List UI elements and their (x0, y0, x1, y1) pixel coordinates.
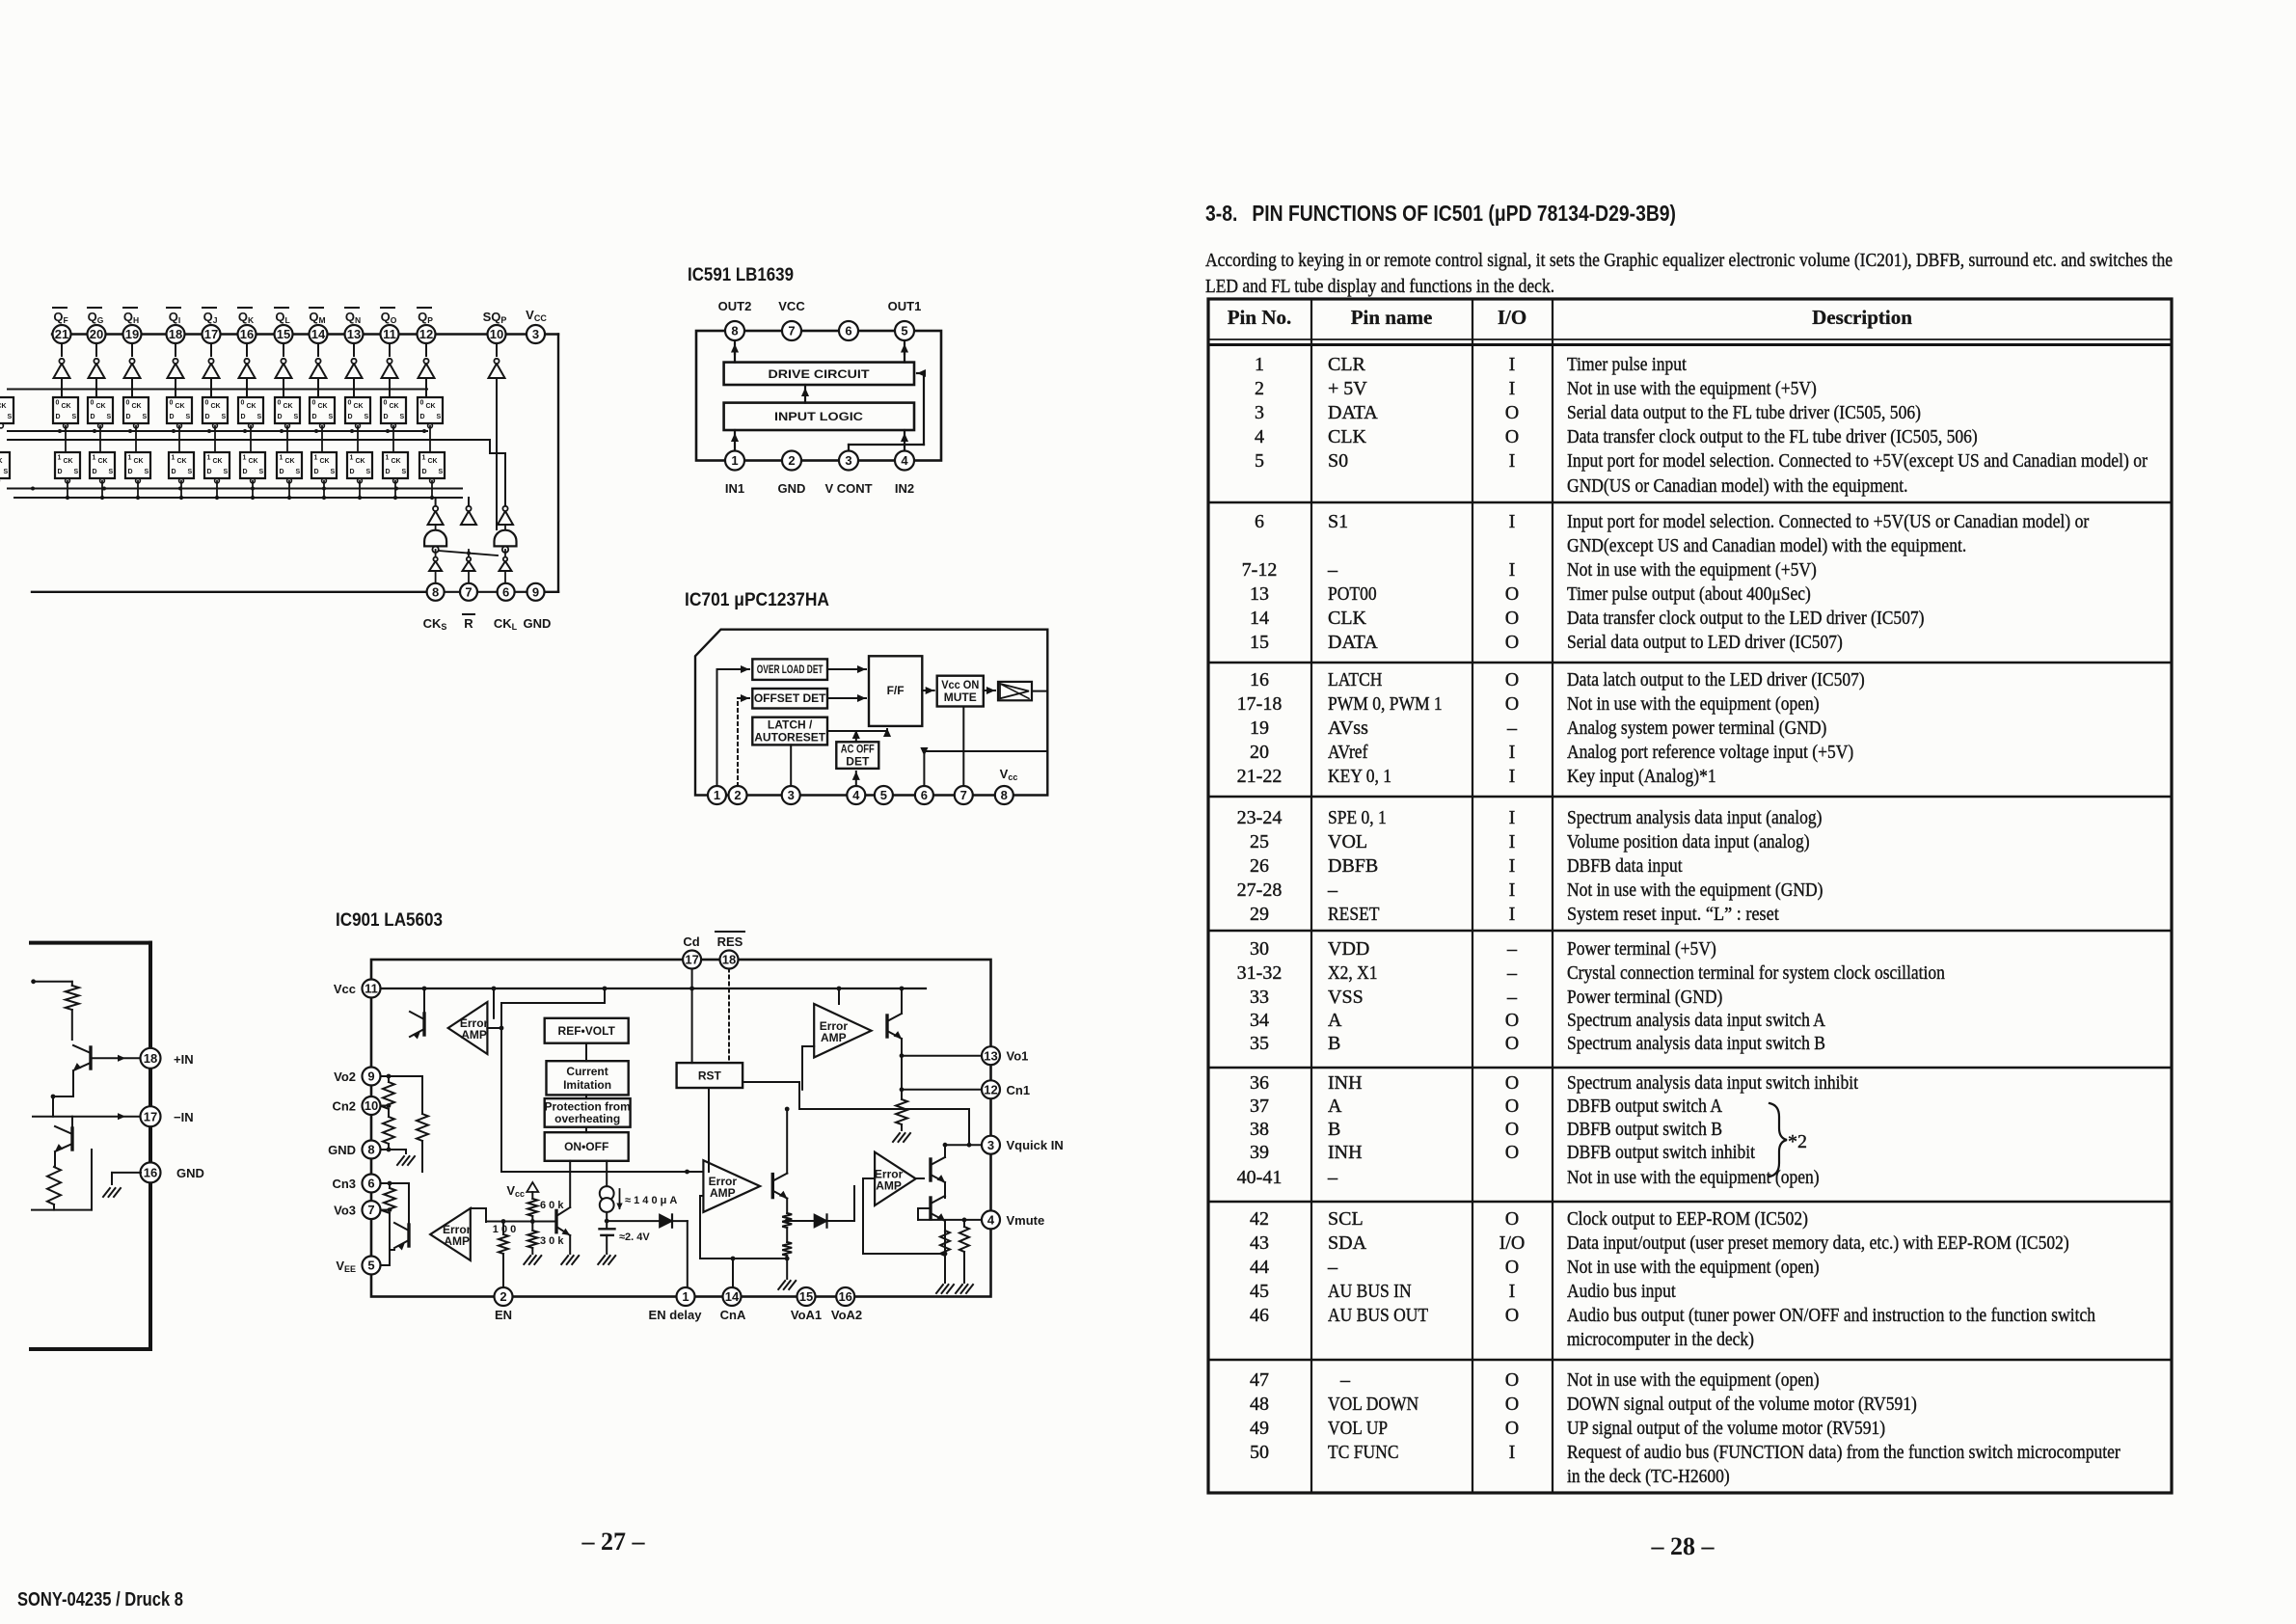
svg-text:CK: CK (320, 458, 330, 465)
svg-text:DBFB output switch B: DBFB output switch B (1567, 1119, 1722, 1140)
svg-text:O: O (1505, 1033, 1519, 1054)
svg-text:Clock output to EEP-ROM (IC502: Clock output to EEP-ROM (IC502) (1567, 1208, 1808, 1230)
svg-text:Not in use with the equipment: Not in use with the equipment (open) (1567, 693, 1820, 715)
svg-text:3: 3 (845, 453, 851, 468)
svg-text:RST: RST (698, 1069, 722, 1082)
svg-text:Spectrum analysis data input (: Spectrum analysis data input (analog) (1567, 807, 1823, 828)
svg-text:38: 38 (1250, 1119, 1269, 1140)
svg-text:S: S (74, 469, 79, 475)
svg-text:D: D (350, 469, 355, 475)
svg-text:CK: CK (392, 458, 401, 465)
svg-text:16: 16 (838, 1289, 851, 1304)
svg-text:I: I (1509, 378, 1516, 399)
svg-text:I: I (1509, 831, 1516, 853)
svg-text:F/F: F/F (887, 684, 905, 697)
svg-text:PWM 0, PWM 1: PWM 0, PWM 1 (1328, 693, 1443, 715)
svg-text:16: 16 (1250, 669, 1269, 690)
svg-text:Serial data output to the FL t: Serial data output to the FL tube driver… (1567, 402, 1921, 423)
svg-text:O: O (1505, 426, 1519, 447)
svg-text:VCC: VCC (778, 299, 805, 313)
svg-text:O: O (1505, 608, 1519, 629)
svg-text:2: 2 (734, 788, 741, 802)
svg-text:6 0 k: 6 0 k (540, 1200, 564, 1211)
svg-text:AVref: AVref (1328, 742, 1368, 763)
svg-text:2: 2 (1255, 378, 1264, 399)
svg-text:Not in use with the equipment: Not in use with the equipment (open) (1567, 1369, 1820, 1391)
svg-text:D: D (170, 414, 175, 420)
svg-text:Vcc: Vcc (506, 1183, 525, 1199)
svg-text:18: 18 (144, 1051, 157, 1066)
svg-text:47: 47 (1250, 1369, 1269, 1391)
svg-text:QL: QL (275, 310, 289, 325)
svg-text:14: 14 (1250, 608, 1269, 629)
svg-text:VSS: VSS (1328, 987, 1364, 1008)
svg-text:QN: QN (345, 310, 361, 325)
svg-text:Vquick IN: Vquick IN (1007, 1138, 1064, 1152)
svg-text:RESET: RESET (1328, 904, 1380, 925)
svg-text:VDD: VDD (1328, 938, 1369, 960)
svg-text:D: D (422, 469, 427, 475)
svg-text:CKS: CKS (423, 616, 447, 632)
svg-text:3: 3 (532, 327, 539, 341)
svg-text:13: 13 (984, 1048, 997, 1063)
svg-text:S: S (4, 469, 9, 475)
svg-text:VoA2: VoA2 (831, 1308, 862, 1322)
svg-text:CK: CK (132, 403, 142, 410)
svg-text:12: 12 (419, 327, 433, 341)
svg-text:D: D (348, 414, 353, 420)
svg-text:Spectrum analysis data input s: Spectrum analysis data input switch B (1567, 1033, 1825, 1054)
svg-text:D: D (93, 469, 97, 475)
svg-text:15: 15 (277, 327, 290, 341)
svg-text:1: 1 (422, 455, 426, 462)
svg-text:CLK: CLK (1328, 426, 1367, 447)
svg-text:4: 4 (852, 788, 860, 802)
svg-text:5: 5 (901, 324, 907, 338)
svg-text:O: O (1505, 693, 1519, 715)
svg-text:1: 1 (731, 453, 738, 468)
svg-text:CnA: CnA (720, 1308, 746, 1322)
svg-text:0: 0 (278, 400, 282, 407)
svg-text:VCC: VCC (526, 308, 547, 323)
svg-text:ON•OFF: ON•OFF (564, 1140, 608, 1153)
svg-text:AMP: AMP (821, 1031, 847, 1044)
svg-text:Serial data output to LED driv: Serial data output to LED driver (IC507) (1567, 632, 1843, 653)
svg-text:46: 46 (1250, 1305, 1269, 1326)
svg-text:17-18: 17-18 (1237, 693, 1283, 715)
svg-text:Vo2: Vo2 (334, 1069, 356, 1084)
svg-text:GND: GND (778, 481, 806, 496)
svg-text:S: S (145, 469, 149, 475)
svg-text:CK: CK (177, 458, 187, 465)
svg-text:–: – (1506, 717, 1518, 739)
svg-text:7-12: 7-12 (1242, 559, 1278, 581)
svg-text:QM: QM (309, 310, 325, 325)
svg-text:X2, X1: X2, X1 (1328, 962, 1378, 984)
svg-text:O: O (1505, 1208, 1519, 1230)
svg-text:27-28: 27-28 (1237, 880, 1283, 901)
svg-text:8: 8 (367, 1143, 374, 1157)
svg-text:25: 25 (1250, 831, 1269, 853)
svg-text:SONY-04235 / Druck 8: SONY-04235 / Druck 8 (17, 1589, 183, 1610)
svg-text:DATA: DATA (1328, 402, 1378, 423)
svg-text:O: O (1505, 1142, 1519, 1163)
svg-text:Audio bus output (tuner power: Audio bus output (tuner power ON/OFF and… (1567, 1305, 2095, 1326)
svg-text:Vcc: Vcc (1000, 767, 1018, 782)
svg-text:REF•VOLT: REF•VOLT (558, 1024, 616, 1038)
svg-text:CK: CK (285, 458, 295, 465)
svg-text:Input port for model selection: Input port for model selection. Connecte… (1567, 511, 2090, 532)
svg-text:S: S (143, 414, 148, 420)
svg-text:D: D (280, 469, 284, 475)
svg-text:Vo3: Vo3 (334, 1204, 356, 1218)
svg-text:Cn3: Cn3 (332, 1177, 356, 1191)
svg-text:8: 8 (432, 584, 439, 599)
svg-text:Data transfer clock output to: Data transfer clock output to the FL tub… (1567, 426, 1978, 447)
svg-text:20: 20 (1250, 742, 1269, 763)
svg-text:O: O (1505, 1369, 1519, 1391)
svg-text:CK: CK (426, 403, 436, 410)
svg-text:43: 43 (1250, 1232, 1269, 1254)
svg-text:11: 11 (365, 982, 378, 996)
svg-text:I: I (1509, 450, 1516, 472)
svg-text:GND: GND (524, 616, 552, 631)
svg-text:SCL: SCL (1328, 1208, 1364, 1230)
svg-text:D: D (56, 414, 61, 420)
svg-text:CK: CK (98, 458, 108, 465)
svg-text:0: 0 (384, 400, 388, 407)
svg-text:Request of audio bus (FUNCTION: Request of audio bus (FUNCTION data) fro… (1567, 1442, 2120, 1463)
svg-text:18: 18 (722, 953, 736, 967)
svg-text:12: 12 (984, 1082, 997, 1096)
svg-text:I: I (1509, 559, 1516, 581)
svg-text:CK: CK (176, 403, 185, 410)
svg-text:4: 4 (901, 453, 908, 468)
svg-text:LATCH: LATCH (1328, 669, 1382, 690)
svg-text:20: 20 (90, 327, 103, 341)
svg-text:30: 30 (1250, 938, 1269, 960)
svg-text:6: 6 (921, 788, 928, 802)
svg-text:I/O: I/O (1499, 1232, 1526, 1254)
svg-text:B: B (1328, 1119, 1340, 1140)
svg-text:Not in use with the equipment: Not in use with the equipment (+5V) (1567, 559, 1817, 581)
svg-text:44: 44 (1250, 1257, 1269, 1278)
svg-text:AMP: AMP (876, 1178, 902, 1192)
svg-text:14: 14 (311, 327, 326, 341)
svg-text:CK: CK (247, 403, 257, 410)
svg-text:S: S (109, 469, 114, 475)
svg-text:≈ 1 4 0 μ A: ≈ 1 4 0 μ A (625, 1195, 677, 1206)
svg-text:I: I (1509, 511, 1516, 532)
svg-text:D: D (241, 414, 246, 420)
svg-text:17: 17 (204, 327, 218, 341)
svg-text:D: D (314, 469, 319, 475)
svg-text:15: 15 (1250, 632, 1269, 653)
svg-text:45: 45 (1250, 1281, 1269, 1302)
svg-text:21-22: 21-22 (1237, 766, 1283, 787)
svg-text:LED and FL tube display and fu: LED and FL tube display and functions in… (1205, 276, 1554, 297)
svg-text:16: 16 (240, 327, 254, 341)
svg-text:2: 2 (788, 453, 795, 468)
svg-text:1: 1 (1255, 354, 1264, 375)
svg-text:DBFB output switch A: DBFB output switch A (1567, 1096, 1722, 1117)
svg-text:21: 21 (55, 327, 68, 341)
svg-text:6: 6 (1255, 511, 1264, 532)
svg-text:18: 18 (169, 327, 182, 341)
svg-text:CK: CK (0, 458, 3, 465)
svg-text:Analog port reference voltage: Analog port reference voltage input (+5V… (1567, 742, 1853, 763)
svg-text:DOWN signal output of the volu: DOWN signal output of the volume motor (… (1567, 1394, 1917, 1415)
svg-text:0: 0 (420, 400, 424, 407)
svg-text:I/O: I/O (1498, 306, 1526, 329)
svg-text:8: 8 (731, 324, 738, 338)
svg-text:D: D (312, 414, 317, 420)
svg-text:AMP: AMP (444, 1234, 470, 1248)
svg-text:QI: QI (169, 310, 181, 325)
svg-text:5: 5 (367, 1259, 374, 1273)
svg-text:CK: CK (356, 458, 365, 465)
svg-text:50: 50 (1250, 1442, 1269, 1463)
svg-text:CK: CK (64, 458, 73, 465)
svg-text:VoA1: VoA1 (791, 1308, 822, 1322)
svg-text:QP: QP (418, 310, 433, 325)
svg-text:microcomputer in the deck): microcomputer in the deck) (1567, 1329, 1754, 1350)
svg-text:5: 5 (880, 788, 887, 802)
svg-text:13: 13 (347, 327, 361, 341)
svg-text:–: – (1327, 1257, 1338, 1278)
svg-text:4: 4 (1255, 426, 1264, 447)
svg-text:UP signal output of the volume: UP signal output of the volume motor (RV… (1567, 1418, 1885, 1439)
svg-text:O: O (1505, 1010, 1519, 1031)
svg-text:QO: QO (381, 310, 397, 325)
svg-text:AU BUS IN: AU BUS IN (1328, 1281, 1412, 1302)
svg-text:−IN: −IN (174, 1110, 194, 1124)
svg-text:CKL: CKL (494, 616, 518, 632)
svg-text:–: – (1506, 987, 1518, 1008)
svg-text:13: 13 (1250, 583, 1269, 605)
svg-text:POT00: POT00 (1328, 583, 1377, 605)
svg-text:O: O (1505, 1305, 1519, 1326)
svg-text:B: B (1328, 1033, 1340, 1054)
svg-text:Spectrum analysis data input s: Spectrum analysis data input switch A (1567, 1010, 1825, 1031)
svg-text:Analog system power terminal (: Analog system power terminal (GND) (1567, 717, 1826, 739)
svg-text:6: 6 (367, 1177, 374, 1191)
svg-text:10: 10 (490, 327, 503, 341)
svg-text:Cd: Cd (683, 934, 699, 949)
svg-text:48: 48 (1250, 1394, 1269, 1415)
svg-text:VEE: VEE (336, 1259, 356, 1274)
svg-text:16: 16 (144, 1165, 157, 1179)
svg-text:OFFSET DET: OFFSET DET (754, 691, 826, 705)
svg-text:O: O (1505, 583, 1519, 605)
svg-text:CK: CK (62, 403, 71, 410)
svg-text:9: 9 (532, 584, 539, 599)
svg-text:4: 4 (987, 1212, 995, 1227)
svg-text:I: I (1509, 766, 1516, 787)
svg-text:– 27 –: – 27 – (581, 1528, 646, 1556)
svg-text:AVss: AVss (1328, 717, 1368, 739)
svg-text:Timer pulse output (about 400μ: Timer pulse output (about 400μSec) (1567, 583, 1811, 605)
svg-text:3: 3 (1255, 402, 1264, 423)
svg-text:AMP: AMP (461, 1028, 487, 1042)
svg-text:IN1: IN1 (725, 481, 744, 496)
svg-text:CLK: CLK (1328, 608, 1367, 629)
svg-text:S: S (224, 469, 229, 475)
svg-text:0: 0 (312, 400, 316, 407)
svg-text:S: S (8, 414, 13, 420)
svg-text:S: S (72, 414, 77, 420)
svg-text:Vmute: Vmute (1007, 1213, 1045, 1228)
svg-text:6: 6 (502, 584, 509, 599)
svg-text:9: 9 (367, 1069, 374, 1084)
svg-text:CK: CK (249, 458, 258, 465)
svg-text:1: 1 (682, 1289, 689, 1304)
svg-text:O: O (1505, 1119, 1519, 1140)
svg-text:CK: CK (354, 403, 364, 410)
svg-text:1: 1 (280, 455, 284, 462)
svg-text:Not in use with the equipment: Not in use with the equipment (+5V) (1567, 378, 1817, 399)
svg-text:D: D (420, 414, 425, 420)
svg-text:QG: QG (88, 310, 104, 325)
svg-text:D: D (172, 469, 176, 475)
svg-text:D: D (205, 414, 210, 420)
svg-text:AC OFF: AC OFF (841, 742, 875, 755)
svg-text:IC901 LA5603: IC901 LA5603 (336, 910, 443, 931)
svg-text:34: 34 (1250, 1010, 1269, 1031)
svg-text:–: – (1327, 1167, 1338, 1188)
svg-text:40-41: 40-41 (1237, 1167, 1283, 1188)
svg-text:overheating: overheating (554, 1112, 620, 1125)
svg-text:O: O (1505, 1072, 1519, 1094)
svg-text:A: A (1328, 1010, 1342, 1031)
svg-text:O: O (1505, 1096, 1519, 1117)
svg-text:Cn2: Cn2 (332, 1099, 356, 1114)
svg-text:S: S (222, 414, 227, 420)
svg-text:CK: CK (428, 458, 438, 465)
svg-text:IN2: IN2 (895, 481, 914, 496)
svg-text:O: O (1505, 1418, 1519, 1439)
svg-text:Not in use with the equipment: Not in use with the equipment (GND) (1567, 880, 1823, 901)
svg-text:Current: Current (566, 1065, 608, 1078)
svg-text:5: 5 (1255, 450, 1264, 472)
svg-text:I: I (1509, 904, 1516, 925)
svg-text:D: D (243, 469, 248, 475)
svg-text:7: 7 (960, 788, 967, 802)
svg-text:11: 11 (383, 327, 396, 341)
svg-text:Pin name: Pin name (1351, 306, 1433, 329)
svg-text:QH: QH (123, 310, 139, 325)
svg-text:Not in use with the equipment: Not in use with the equipment (open) (1567, 1167, 1820, 1188)
svg-text:LATCH /: LATCH / (768, 717, 813, 731)
svg-text:GND(US or Canadian model) with: GND(US or Canadian model) with the equip… (1567, 475, 1908, 497)
svg-text:35: 35 (1250, 1033, 1269, 1054)
svg-text:INPUT LOGIC: INPUT LOGIC (774, 410, 863, 423)
svg-text:CK: CK (390, 403, 399, 410)
svg-text:3 0 k: 3 0 k (540, 1235, 564, 1247)
svg-text:AUTORESET: AUTORESET (754, 730, 825, 744)
svg-text:1: 1 (386, 455, 390, 462)
svg-text:S: S (259, 469, 264, 475)
svg-text:≈2. 4V: ≈2. 4V (619, 1232, 650, 1243)
svg-text:MUTE: MUTE (944, 690, 977, 704)
svg-text:S: S (188, 469, 193, 475)
svg-text:3: 3 (987, 1138, 994, 1152)
svg-text:VOL UP: VOL UP (1328, 1418, 1388, 1439)
svg-text:26: 26 (1250, 855, 1269, 877)
svg-text:17: 17 (685, 953, 698, 967)
svg-text:–: – (1339, 1369, 1351, 1391)
svg-text:VOL DOWN: VOL DOWN (1328, 1394, 1418, 1415)
svg-text:0: 0 (241, 400, 245, 407)
svg-text:Vcc: Vcc (334, 982, 356, 996)
svg-text:31-32: 31-32 (1237, 962, 1283, 984)
svg-text:GND(except US and Canadian mod: GND(except US and Canadian model) with t… (1567, 535, 1966, 556)
svg-text:Input port for model selection: Input port for model selection. Connecte… (1567, 450, 2147, 472)
svg-text:D: D (386, 469, 391, 475)
svg-text:3: 3 (788, 788, 795, 802)
svg-text:Data latch output to the LED d: Data latch output to the LED driver (IC5… (1567, 669, 1865, 690)
svg-text:CK: CK (0, 403, 7, 410)
svg-text:AU BUS OUT: AU BUS OUT (1328, 1305, 1428, 1326)
svg-text:S1: S1 (1328, 511, 1348, 532)
svg-text:15: 15 (799, 1289, 813, 1304)
svg-text:0: 0 (56, 400, 60, 407)
svg-text:1: 1 (714, 788, 720, 802)
svg-text:Crystal connection terminal fo: Crystal connection terminal for system c… (1567, 962, 1945, 984)
svg-text:Vcc ON: Vcc ON (941, 678, 979, 691)
svg-text:S0: S0 (1328, 450, 1348, 472)
svg-text:INH: INH (1328, 1142, 1363, 1163)
svg-text:3-8. PIN FUNCTIONS OF IC501 (: 3-8. PIN FUNCTIONS OF IC501 (μPD 78134-D… (1205, 201, 1676, 226)
svg-text:in the deck (TC-H2600): in the deck (TC-H2600) (1567, 1466, 1730, 1487)
svg-text:Not in use with the equipment: Not in use with the equipment (open) (1567, 1257, 1820, 1278)
svg-text:37: 37 (1250, 1096, 1269, 1117)
svg-text:AMP: AMP (710, 1186, 736, 1200)
svg-text:23-24: 23-24 (1237, 807, 1283, 828)
svg-text:DRIVE CIRCUIT: DRIVE CIRCUIT (769, 367, 871, 381)
svg-text:D: D (278, 414, 283, 420)
svg-text:–: – (1506, 938, 1518, 960)
svg-text:QJ: QJ (203, 310, 218, 325)
svg-text:S: S (365, 414, 369, 420)
svg-text:Volume position data input (an: Volume position data input (analog) (1567, 831, 1810, 853)
svg-text:Vo1: Vo1 (1007, 1049, 1029, 1064)
svg-text:D: D (91, 414, 95, 420)
svg-text:CK: CK (318, 403, 328, 410)
svg-text:7: 7 (465, 584, 472, 599)
svg-text:I: I (1509, 855, 1516, 877)
svg-text:1: 1 (207, 455, 211, 462)
svg-text:OVER LOAD DET: OVER LOAD DET (757, 663, 824, 676)
svg-text:O: O (1505, 632, 1519, 653)
svg-text:Imitation: Imitation (563, 1078, 611, 1092)
svg-text:10: 10 (365, 1098, 378, 1113)
svg-text:Data input/output (user preset: Data input/output (user preset memory da… (1567, 1232, 2069, 1254)
svg-text:Spectrum analysis data input s: Spectrum analysis data input switch inhi… (1567, 1072, 1858, 1094)
svg-text:S: S (186, 414, 191, 420)
svg-text:OUT2: OUT2 (718, 299, 752, 313)
svg-text:S: S (107, 414, 112, 420)
svg-text:+ 5V: + 5V (1328, 378, 1367, 399)
svg-text:S: S (366, 469, 371, 475)
svg-text:39: 39 (1250, 1142, 1269, 1163)
svg-text:GND: GND (176, 1166, 204, 1180)
svg-text:S: S (402, 469, 407, 475)
svg-text:Timer pulse input: Timer pulse input (1567, 354, 1687, 375)
svg-text:Cn1: Cn1 (1007, 1083, 1031, 1097)
svg-text:CK: CK (213, 458, 223, 465)
svg-text:A: A (1328, 1096, 1342, 1117)
